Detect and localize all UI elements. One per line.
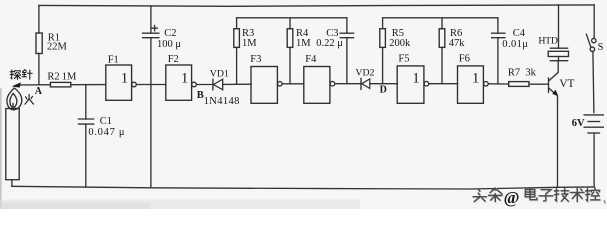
svg-text:1M: 1M: [242, 38, 257, 49]
svg-text:VD1: VD1: [210, 68, 229, 79]
svg-text:0.01μ: 0.01μ: [502, 39, 528, 50]
svg-text:1: 1: [472, 70, 479, 86]
svg-text:C2: C2: [164, 28, 176, 39]
svg-text:C4: C4: [513, 28, 526, 39]
svg-text:1: 1: [121, 70, 128, 86]
svg-text:0.047 μ: 0.047 μ: [88, 127, 125, 138]
svg-text:F3: F3: [250, 54, 261, 65]
svg-text:VT: VT: [559, 78, 574, 90]
svg-text:1N4148: 1N4148: [204, 96, 240, 107]
svg-text:F4: F4: [305, 54, 317, 65]
svg-text:100 μ: 100 μ: [157, 39, 181, 50]
svg-text:F2: F2: [168, 54, 179, 65]
svg-text:1M: 1M: [296, 38, 311, 49]
svg-text:1: 1: [412, 70, 419, 86]
svg-text:S: S: [598, 42, 604, 53]
svg-text:C1: C1: [100, 116, 112, 127]
svg-text:F6: F6: [459, 53, 470, 64]
svg-text:22M: 22M: [47, 42, 68, 53]
svg-text:0.22 μ: 0.22 μ: [316, 38, 343, 49]
svg-text:F5: F5: [398, 53, 409, 64]
svg-text:HTD: HTD: [538, 35, 557, 46]
svg-text:6V: 6V: [572, 118, 585, 129]
svg-text:D: D: [380, 85, 387, 96]
svg-text:47k: 47k: [449, 38, 466, 49]
svg-text:VD2: VD2: [355, 68, 374, 79]
svg-text:1: 1: [181, 70, 188, 86]
svg-text:1M: 1M: [62, 72, 77, 83]
svg-text:F1: F1: [108, 54, 119, 65]
svg-text:A: A: [35, 86, 43, 97]
svg-text:R7 3k: R7 3k: [508, 68, 537, 79]
svg-text:@: @: [504, 188, 520, 207]
svg-text:200k: 200k: [389, 38, 411, 49]
svg-text:R2: R2: [47, 72, 59, 83]
